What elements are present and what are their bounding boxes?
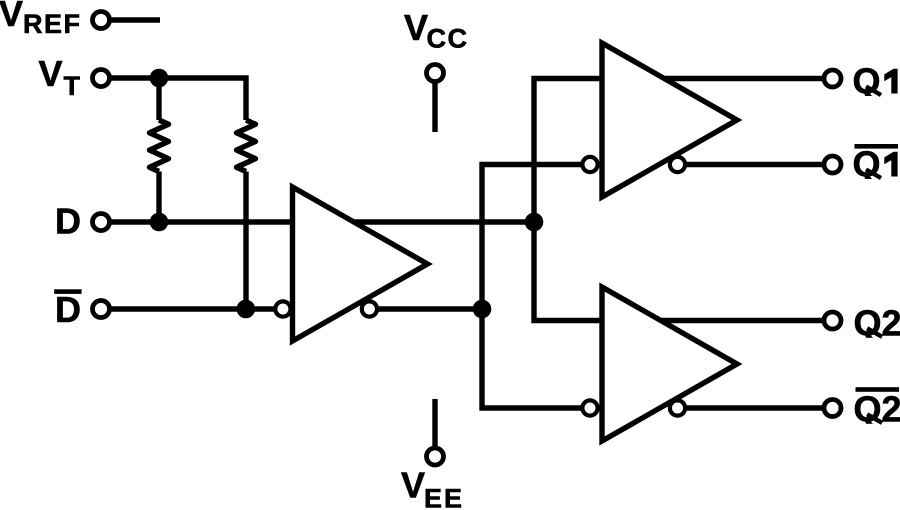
bubble U3 inverting input: [582, 400, 597, 415]
terminal VCC: [427, 65, 444, 82]
junction dot node B (482,309): [473, 300, 492, 319]
svg-text:D: D: [55, 201, 81, 242]
junction dot D/R1: [150, 213, 169, 232]
svg-text:Q: Q: [853, 144, 881, 185]
wire vertical bus x=534 from Q1 input to Q2 input: [534, 79, 601, 321]
svg-text:Q2: Q2: [854, 388, 900, 429]
terminal DBAR: [93, 301, 110, 318]
svg-text:D: D: [55, 289, 81, 330]
wire VEE stub: [432, 399, 437, 457]
wire Q1BAR output to terminal: [678, 162, 833, 167]
svg-text:EE: EE: [424, 484, 464, 510]
terminal VT: [93, 70, 110, 87]
wire Q2 output to terminal: [660, 318, 833, 323]
bubble U2 inverting output: [670, 157, 685, 172]
svg-text:V: V: [404, 7, 428, 48]
junction dot node A (534,222): [525, 213, 544, 232]
op-amp buffer U2 (Q1 output buffer): [602, 43, 737, 197]
wire R1 bottom to D line: [156, 172, 161, 223]
bubble U2 inverting input: [582, 157, 597, 172]
terminal VEE: [427, 448, 444, 465]
svg-text:V: V: [39, 53, 63, 94]
svg-text:REF: REF: [23, 9, 82, 39]
bubble U1 inverting input: [275, 301, 290, 316]
bubble U1 inverting output: [362, 301, 377, 316]
wire VREF stub: [101, 17, 160, 22]
wire vertical bus x=482 from Q1 inverting input to Q2 inverting input: [482, 165, 590, 409]
terminal VREF: [93, 12, 110, 29]
svg-text:Q: Q: [853, 61, 881, 102]
terminal Q1: [824, 70, 841, 87]
wire VT junction down to R1: [156, 78, 161, 120]
wire VT row with corner down to R2: [101, 78, 246, 120]
wire Q1 output to terminal: [663, 76, 833, 81]
wire DBAR input row: [101, 306, 283, 311]
wire Q2BAR output to terminal: [678, 405, 833, 410]
wire R2 bottom to DBAR line: [243, 172, 248, 310]
svg-text:V: V: [0, 0, 23, 34]
resistor R2: [237, 120, 256, 172]
svg-text:V: V: [401, 465, 425, 506]
bubble U3 inverting output: [670, 400, 685, 415]
resistor R1: [150, 120, 169, 172]
svg-text:CC: CC: [427, 24, 469, 54]
svg-text:T: T: [64, 71, 81, 101]
wire U1 bottom output to node: [369, 306, 482, 311]
wire U1 top output to node: [352, 219, 534, 224]
terminal Q1BAR: [824, 156, 841, 173]
junction dot DBAR/R2: [237, 300, 256, 319]
op-amp buffer U3 (Q2 output buffer): [602, 287, 737, 441]
wire VCC stub: [432, 73, 437, 132]
op-amp buffer U1 (input buffer): [293, 187, 428, 341]
wire D input row: [101, 219, 291, 224]
junction dot VT/R1: [150, 69, 169, 88]
svg-text:Q2: Q2: [854, 302, 900, 343]
terminal D: [93, 214, 110, 231]
terminal Q2BAR: [824, 400, 841, 417]
terminal Q2: [824, 312, 841, 329]
